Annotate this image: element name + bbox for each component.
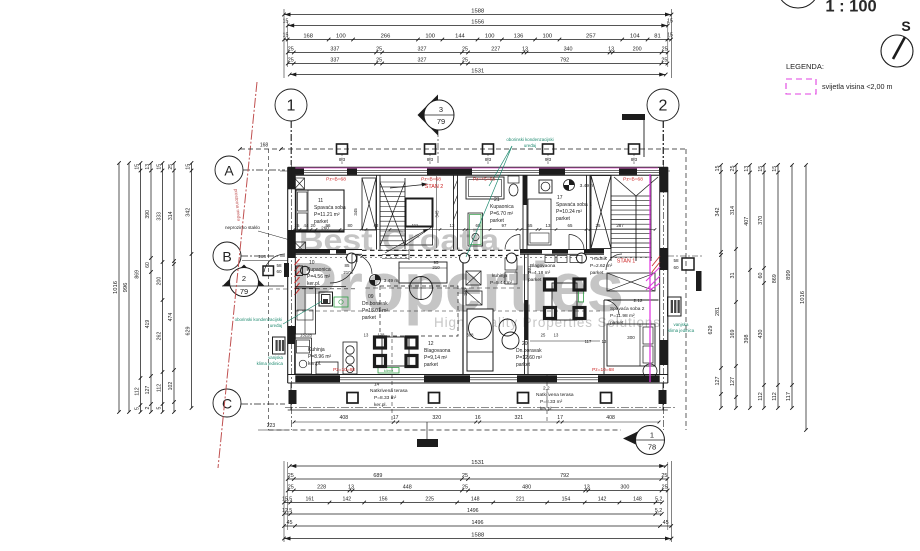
svg-text:225: 225: [425, 497, 434, 503]
red wall hatch right: [652, 262, 660, 272]
svg-text:168: 168: [303, 34, 313, 40]
svg-text:60: 60: [758, 273, 764, 279]
svg-text:12,5: 12,5: [282, 508, 292, 514]
svg-text:Spavaća soba: Spavaća soba: [314, 205, 346, 211]
svg-text:474: 474: [168, 313, 174, 322]
svg-text:281: 281: [715, 307, 721, 316]
svg-text:Pz=B=68: Pz=B=68: [623, 177, 643, 183]
svg-text:25: 25: [661, 473, 667, 479]
svg-text:1496: 1496: [472, 520, 484, 526]
svg-text:S: S: [901, 18, 910, 34]
red hatch on left wall: [295, 259, 300, 265]
stair lower flight: [382, 250, 409, 252]
svg-text:P=6.70 m²: P=6.70 m²: [490, 211, 514, 217]
top dimension row 337/327/792: [288, 63, 668, 65]
svg-text:Hodnik: Hodnik: [592, 256, 608, 262]
svg-text:55: 55: [528, 223, 533, 228]
klima left: [273, 337, 286, 354]
height symbol 3.49m: [370, 275, 381, 286]
grid bubble 1: [275, 89, 307, 121]
stool room2: [643, 364, 657, 378]
svg-text:1556: 1556: [471, 20, 484, 26]
svg-text:16: 16: [475, 415, 481, 421]
svg-text:314: 314: [168, 211, 174, 220]
svg-text:parket: parket: [556, 216, 571, 222]
svg-text:260: 260: [321, 226, 329, 231]
section cut fill mark: [417, 439, 438, 447]
svg-text:996: 996: [123, 283, 129, 293]
grid bubble A: [215, 156, 243, 184]
svg-text:300: 300: [627, 335, 635, 340]
svg-text:117: 117: [786, 392, 792, 401]
kitchen2 appliance boxes: [466, 271, 481, 285]
svg-text:314: 314: [730, 206, 736, 215]
stair2 rail: [635, 196, 637, 261]
svg-text:1 : 100: 1 : 100: [825, 0, 876, 16]
svg-text:25: 25: [462, 47, 468, 53]
svg-text:P=18.01 m²: P=18.01 m²: [362, 308, 388, 314]
svg-text:25: 25: [288, 47, 294, 53]
svg-text:370: 370: [758, 216, 764, 225]
svg-text:154: 154: [562, 497, 571, 503]
svg-text:P=4.18 m²: P=4.18 m²: [528, 270, 551, 276]
terrace columns: [347, 393, 358, 404]
svg-text:15: 15: [157, 164, 163, 170]
svg-text:111: 111: [412, 223, 419, 228]
door arcs: [352, 254, 372, 274]
svg-text:25: 25: [288, 473, 294, 479]
svg-text:128: 128: [378, 333, 386, 338]
svg-text:1531: 1531: [471, 69, 484, 75]
svg-text:127: 127: [715, 377, 721, 386]
svg-text:340: 340: [564, 47, 573, 53]
svg-text:uređaj: uređaj: [270, 323, 282, 328]
svg-text:Pz=B=68: Pz=B=68: [421, 177, 441, 183]
legend dashed magenta box: [786, 79, 816, 94]
wall X hatches room11: [295, 178, 305, 189]
bath21 tub: [466, 177, 504, 199]
svg-text:342: 342: [186, 208, 192, 217]
svg-text:117: 117: [585, 339, 592, 344]
svg-text:Pz=10=68: Pz=10=68: [592, 367, 614, 373]
svg-text:80: 80: [348, 223, 353, 228]
terrace edge lines: [290, 383, 292, 410]
bath21 shower green: [468, 213, 483, 246]
svg-text:neprozirno staklo: neprozirno staklo: [225, 225, 260, 230]
svg-text:vanjska: vanjska: [674, 322, 689, 327]
svg-text:15: 15: [772, 166, 778, 172]
corridor dashed line: [295, 310, 600, 312]
svg-text:25: 25: [462, 485, 468, 491]
sofa living 09: [399, 262, 447, 283]
right dash link: [668, 255, 702, 257]
svg-text:792: 792: [560, 58, 569, 64]
svg-text:13: 13: [602, 339, 607, 344]
svg-text:161: 161: [306, 497, 315, 503]
svg-text:09: 09: [368, 294, 374, 300]
svg-text:Kupaonica: Kupaonica: [307, 267, 331, 273]
watermark Best Croatia: [292, 224, 624, 326]
svg-text:58: 58: [673, 258, 679, 263]
svg-text:419: 419: [145, 320, 151, 329]
svg-text:407: 407: [744, 217, 750, 226]
svg-text:100: 100: [542, 34, 552, 40]
svg-text:13: 13: [450, 223, 455, 228]
svg-text:240: 240: [463, 288, 468, 296]
svg-text:1016: 1016: [800, 291, 806, 304]
svg-text:408: 408: [339, 415, 348, 421]
green cabinet: [334, 297, 348, 307]
svg-text:STAN 1: STAN 1: [617, 259, 635, 265]
svg-text:60: 60: [145, 262, 151, 268]
svg-text:P=11.98 m²: P=11.98 m²: [610, 313, 635, 319]
svg-text:148: 148: [633, 497, 642, 503]
svg-text:127: 127: [730, 377, 736, 386]
svg-text:3.49 m: 3.49 m: [384, 278, 399, 284]
svg-text:45: 45: [286, 520, 292, 526]
stair direction diagonal: [385, 229, 428, 253]
grid bubble B: [213, 242, 241, 270]
svg-text:21: 21: [494, 197, 500, 203]
kitchen counter: [295, 338, 312, 374]
svg-text:5,2: 5,2: [655, 497, 662, 503]
svg-text:25: 25: [376, 47, 382, 53]
stair2 treads: [611, 195, 651, 197]
svg-text:112: 112: [135, 387, 141, 395]
svg-text:parket: parket: [362, 315, 377, 321]
svg-text:1531: 1531: [471, 460, 484, 466]
svg-text:792: 792: [560, 473, 569, 479]
svg-text:Pz=+5=68: Pz=+5=68: [473, 177, 495, 183]
svg-text:25: 25: [376, 58, 382, 64]
svg-text:327: 327: [418, 58, 427, 64]
magenta closet hatch: [646, 276, 660, 290]
center circle: [469, 317, 492, 340]
svg-text:parket: parket: [590, 270, 604, 276]
svg-text:2: 2: [659, 98, 668, 115]
svg-text:25: 25: [661, 58, 667, 64]
gallery columns: [347, 253, 357, 263]
svg-text:102: 102: [168, 382, 174, 391]
svg-text:5: 5: [135, 407, 141, 410]
svg-text:parket: parket: [424, 362, 439, 368]
svg-text:11: 11: [318, 198, 323, 204]
svg-text:390: 390: [145, 210, 151, 219]
black bar top near grid2: [622, 114, 645, 120]
svg-text:221: 221: [516, 497, 525, 503]
svg-text:1016: 1016: [113, 281, 119, 294]
svg-text:321: 321: [515, 415, 524, 421]
svg-text:ker.pl.: ker.pl.: [374, 402, 387, 408]
svg-text:parket: parket: [610, 320, 624, 326]
svg-text:15: 15: [758, 166, 764, 172]
svg-text:P=11.21 m²: P=11.21 m²: [314, 212, 340, 218]
top dimension line 1588: [284, 14, 672, 16]
dim extension verticals bottom: [283, 461, 285, 542]
svg-text:uređaj: uređaj: [524, 143, 536, 148]
svg-text:3: 3: [439, 105, 443, 114]
svg-text:Dn.boravak: Dn.boravak: [362, 301, 388, 307]
bottom dimension line 1588: [284, 538, 672, 540]
svg-text:15,5: 15,5: [282, 497, 292, 503]
svg-text:79: 79: [437, 117, 445, 126]
svg-text:oborinski kondenzacijski: oborinski kondenzacijski: [506, 137, 553, 142]
svg-text:13: 13: [348, 485, 354, 491]
wall bath21/bed17: [522, 175, 524, 250]
svg-text:65: 65: [568, 223, 573, 228]
washing machine: [319, 292, 333, 306]
svg-text:2.12: 2.12: [634, 298, 643, 303]
svg-text:112: 112: [772, 392, 778, 401]
closet bedroom2: [607, 273, 655, 291]
svg-text:17: 17: [557, 415, 563, 421]
grid bubble 2: [647, 89, 679, 121]
svg-text:342: 342: [715, 208, 721, 217]
svg-text:25: 25: [288, 58, 294, 64]
svg-text:308: 308: [467, 333, 475, 338]
svg-text:klima: klima: [384, 368, 394, 373]
dim extension verticals top: [283, 9, 285, 78]
svg-text:43: 43: [374, 223, 379, 228]
outer wall bottom: [288, 374, 668, 376]
svg-text:228: 228: [317, 485, 326, 491]
svg-text:5: 5: [157, 406, 163, 409]
canopy dashed outline: [240, 148, 686, 150]
svg-text:LEGENDA:: LEGENDA:: [786, 62, 824, 71]
svg-text:869: 869: [772, 274, 778, 283]
green klima label: [378, 368, 399, 374]
shaft pit extension: [406, 227, 433, 246]
svg-text:Kuhinja: Kuhinja: [308, 347, 325, 353]
svg-text:13: 13: [608, 47, 614, 53]
svg-text:345: 345: [353, 208, 358, 216]
section marker 1/78 bottom right: [623, 429, 643, 448]
svg-text:25: 25: [662, 485, 668, 491]
svg-text:parket: parket: [516, 362, 531, 368]
svg-text:P=8.33 m²: P=8.33 m²: [374, 395, 397, 401]
counter strip kitchen/dining: [343, 342, 357, 374]
svg-text:25: 25: [541, 333, 546, 338]
section marker 3/79 top: [418, 95, 439, 136]
svg-text:629: 629: [186, 327, 192, 336]
svg-text:Kupaonica: Kupaonica: [490, 204, 514, 210]
svg-text:STAN 2: STAN 2: [425, 184, 443, 190]
bottom dimension row 689/792: [288, 478, 668, 480]
bedroom2 walls: [603, 300, 605, 375]
bath10 south wall: [295, 286, 346, 288]
kitchen island: [316, 362, 338, 374]
svg-text:300: 300: [620, 485, 629, 491]
svg-text:25: 25: [730, 166, 736, 172]
scale circle fragment: [777, 0, 819, 8]
svg-text:200: 200: [157, 277, 163, 286]
corridor appliance rects: [545, 256, 555, 263]
right black bar: [696, 271, 702, 291]
svg-text:287: 287: [616, 223, 624, 228]
svg-text:1588: 1588: [471, 533, 484, 539]
svg-text:100: 100: [336, 34, 346, 40]
stair up arrow: [390, 185, 424, 189]
svg-text:345: 345: [435, 210, 440, 218]
bed room2: [607, 324, 655, 366]
svg-text:A: A: [224, 163, 234, 179]
svg-text:25: 25: [168, 164, 174, 170]
svg-text:P=4.56 m²: P=4.56 m²: [307, 274, 331, 280]
svg-text:168: 168: [260, 143, 269, 149]
void dashed rect: [380, 286, 458, 336]
svg-text:127: 127: [145, 386, 151, 395]
svg-text:13: 13: [522, 47, 528, 53]
left vertical dimension lines: [118, 163, 120, 412]
svg-text:1: 1: [650, 431, 654, 440]
center tall rect: [467, 309, 493, 371]
svg-text:15: 15: [715, 166, 721, 172]
wardrobe X right: [591, 176, 611, 249]
svg-text:60: 60: [673, 265, 679, 270]
svg-text:100: 100: [485, 34, 495, 40]
svg-text:100: 100: [425, 34, 435, 40]
bottom dimension row 228/448/480/300: [288, 490, 668, 492]
svg-text:2.2: 2.2: [543, 386, 550, 392]
grid line C through terrace: [285, 407, 676, 409]
svg-text:480: 480: [522, 485, 531, 491]
stair2 V diagonals: [614, 177, 636, 196]
svg-text:25: 25: [596, 223, 601, 228]
top dimension segmented row 168..81: [284, 39, 671, 41]
svg-text:13: 13: [145, 164, 151, 170]
section line 1-1 dash-dot: [269, 429, 622, 431]
svg-text:14: 14: [374, 382, 380, 388]
svg-text:60: 60: [276, 269, 282, 274]
elevator shaft: [406, 199, 433, 227]
svg-text:2: 2: [145, 406, 151, 409]
wardrobe room17: [528, 199, 551, 245]
bath10 toilet: [296, 266, 303, 276]
green leader lines: [466, 146, 512, 257]
svg-text:257: 257: [586, 34, 596, 40]
svg-text:81: 81: [654, 34, 660, 40]
svg-text:Spavaća soba 1: Spavaća soba 1: [556, 202, 592, 208]
svg-text:P=8.96 m²: P=8.96 m²: [308, 354, 332, 360]
svg-text:1588: 1588: [471, 9, 484, 15]
dashed guide verticals: [391, 332, 393, 424]
height symbol 3.49m b: [564, 180, 575, 191]
svg-text:112: 112: [758, 392, 764, 401]
svg-text:25: 25: [295, 223, 300, 228]
svg-text:85: 85: [345, 263, 350, 268]
svg-text:31: 31: [730, 273, 736, 279]
svg-text:25: 25: [288, 485, 294, 491]
wall bedroom11/stair: [376, 175, 378, 250]
svg-text:17: 17: [557, 195, 563, 201]
svg-text:142: 142: [598, 497, 607, 503]
bath21 toilet: [508, 176, 519, 183]
svg-text:kuhinja: kuhinja: [492, 273, 508, 279]
dining table apt2: [552, 283, 577, 320]
svg-text:svijetla visina <2,00 m: svijetla visina <2,00 m: [822, 82, 893, 91]
washer room17: [539, 180, 552, 193]
svg-text:266: 266: [381, 34, 391, 40]
svg-text:448: 448: [403, 485, 412, 491]
outer wall top: [288, 166, 668, 168]
svg-text:333: 333: [157, 212, 163, 221]
svg-text:2: 2: [242, 274, 246, 283]
wall stair/bath21 braced: [453, 175, 455, 250]
svg-text:869: 869: [135, 270, 141, 279]
svg-text:parket: parket: [490, 218, 505, 224]
magenta wall accent top: [295, 167, 658, 169]
bottom dimension line 1496b 45: [284, 525, 671, 527]
svg-text:13: 13: [546, 223, 551, 228]
svg-text:58: 58: [276, 263, 282, 268]
magenta vertical line: [649, 174, 651, 382]
svg-text:327: 327: [418, 47, 427, 53]
svg-text:20: 20: [522, 341, 528, 347]
svg-text:337: 337: [330, 58, 339, 64]
svg-text:25: 25: [662, 47, 668, 53]
outer wall left: [287, 167, 289, 383]
right 58/60 square: [682, 258, 694, 270]
corridor appliance boxes apt2: [505, 258, 517, 270]
svg-text:P=10.24 m²: P=10.24 m²: [556, 209, 582, 215]
section marker 2/79 left: [223, 265, 265, 287]
stair X brace: [380, 182, 405, 246]
svg-text:112: 112: [157, 384, 163, 392]
top dimension row 337/327/227/340/200: [288, 52, 668, 54]
svg-text:Natkrivena terasa: Natkrivena terasa: [370, 388, 408, 394]
svg-text:ker.pl.: ker.pl.: [307, 281, 320, 287]
klima right: [668, 297, 682, 316]
svg-text:Pz=10=68: Pz=10=68: [333, 367, 355, 373]
top dimension line 1531: [290, 74, 666, 76]
svg-text:25: 25: [462, 58, 468, 64]
svg-text:430: 430: [758, 330, 764, 339]
svg-text:10: 10: [309, 260, 315, 266]
svg-text:144: 144: [455, 34, 465, 40]
svg-text:17: 17: [393, 415, 399, 421]
svg-text:227: 227: [491, 47, 500, 53]
wardrobe X room11: [362, 178, 376, 230]
interior dim row y341 apt2: [530, 340, 600, 342]
svg-text:104: 104: [630, 34, 640, 40]
svg-text:P=2.62 m²: P=2.62 m²: [590, 263, 613, 269]
svg-text:148: 148: [471, 497, 480, 503]
svg-text:P=9,14 m²: P=9,14 m²: [424, 355, 448, 361]
svg-text:44: 44: [304, 223, 309, 228]
wall apartment divider lower: [524, 254, 526, 374]
svg-text:parket: parket: [314, 219, 329, 225]
middle wall y250: [288, 249, 362, 251]
svg-text:3.49 m: 3.49 m: [580, 183, 595, 189]
svg-text:ker.pl.: ker.pl.: [308, 361, 321, 367]
outer wall right: [667, 167, 669, 383]
left 58/60 square: [263, 266, 274, 276]
kitchen2 double sink: [499, 319, 516, 336]
svg-text:223: 223: [267, 423, 276, 429]
svg-text:oborinski kondenzacijski: oborinski kondenzacijski: [235, 317, 282, 322]
svg-text:142: 142: [343, 497, 352, 503]
bottom dimension line 1496a: [284, 513, 662, 515]
svg-text:5,2: 5,2: [655, 508, 662, 514]
svg-text:689: 689: [373, 473, 382, 479]
svg-text:398: 398: [744, 335, 750, 344]
svg-text:Blagovaona: Blagovaona: [530, 263, 556, 269]
svg-text:P=8.33 m²: P=8.33 m²: [540, 399, 563, 405]
svg-text:1: 1: [287, 98, 296, 115]
svg-text:vanjska: vanjska: [268, 355, 283, 360]
svg-text:15: 15: [186, 164, 192, 170]
svg-text:15: 15: [135, 164, 141, 170]
